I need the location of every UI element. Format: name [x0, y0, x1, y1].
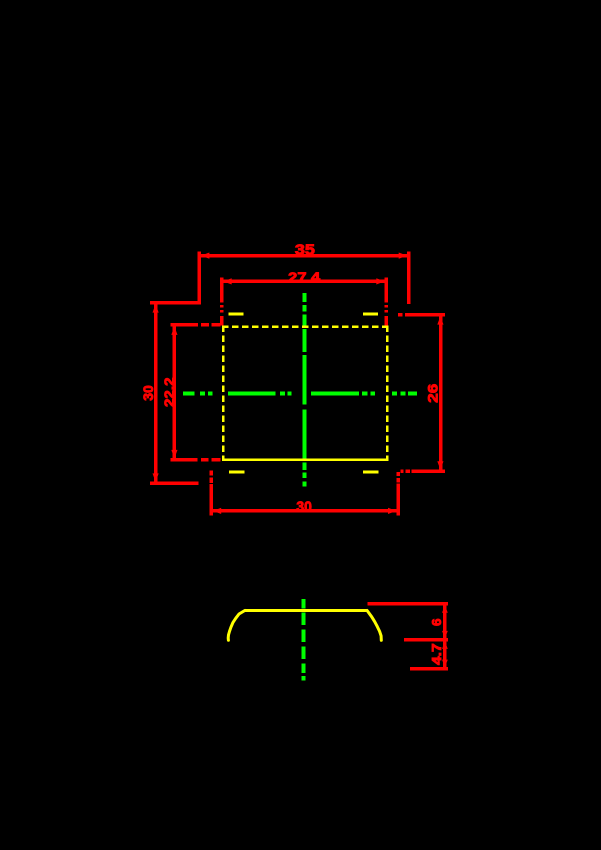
hidden tab dash bottom-right	[363, 470, 378, 473]
outline top edge	[222, 325, 389, 328]
dimension 26: bottom extension line dash-dot	[401, 469, 404, 473]
horizontal centerline top view	[183, 392, 194, 396]
profile outline: flat top	[245, 609, 367, 612]
svg-text:35: 35	[295, 242, 315, 259]
hidden tab dash top-right	[363, 313, 378, 316]
arrow 26 bottom	[437, 461, 443, 470]
arrow 35 right	[399, 253, 408, 259]
dimension 22.2: top extension line dash-dot	[171, 323, 198, 327]
profile dim: top extension line	[368, 602, 449, 606]
svg-text:27.4: 27.4	[288, 269, 320, 285]
arrow 30 left bottom	[153, 473, 159, 482]
arrow 35 left	[201, 253, 210, 259]
svg-text:30: 30	[296, 499, 312, 516]
arrow profile middle down	[442, 631, 448, 639]
hidden tab dash bottom-left	[229, 470, 245, 473]
dimension 30 bottom: right extension line dash-dot	[396, 472, 400, 476]
dimension 30 bottom: left extension line dash-dot	[209, 471, 213, 476]
outline right edge	[386, 325, 389, 459]
hidden tab dash top-left	[229, 313, 244, 316]
svg-text:4.7: 4.7	[429, 643, 444, 665]
dimension 30 left: dim line	[154, 304, 158, 484]
svg-text:22.2: 22.2	[161, 377, 177, 407]
outline left edge	[222, 325, 225, 459]
outline bottom edge (solid)	[222, 458, 389, 461]
svg-text:6: 6	[429, 619, 444, 627]
arrow 30 left top	[153, 304, 159, 313]
profile dim: middle extension line	[404, 638, 448, 642]
profile outline: right shoulder arc	[367, 610, 381, 640]
arrow 22.2 top	[171, 326, 177, 335]
dimension 35: dim line	[199, 254, 408, 258]
arrow 22.2 bottom	[171, 450, 177, 459]
vertical centerline top view	[302, 293, 306, 302]
dimension 30 left: bottom extension line	[150, 482, 198, 486]
svg-text:26: 26	[425, 384, 441, 403]
arrow 30 bottom right	[388, 508, 397, 514]
svg-text:30: 30	[140, 385, 156, 401]
vertical centerline profile view	[302, 599, 306, 608]
dimension 30 left: top extension line	[150, 301, 201, 305]
profile dim: bottom extension line	[410, 667, 448, 671]
dimension 22.2: bottom extension line dash-dot	[171, 458, 198, 462]
arrow 30 bottom left	[213, 508, 222, 514]
arrow 26 top	[437, 316, 443, 325]
dimension 27.4: right extension line dashed	[385, 277, 389, 302]
dimension 27.4: dim line	[222, 280, 387, 284]
dimension 26: dim line	[439, 315, 443, 471]
dimension 35: right extension line	[407, 252, 411, 305]
dimension 22.2: dim line	[173, 326, 177, 459]
dimension 30 bottom: dim line	[211, 509, 399, 513]
dimension 35: left extension line	[198, 252, 202, 305]
arrow profile bottom down	[442, 660, 448, 668]
dimension 26: top extension line dash-dot	[398, 313, 403, 317]
arrow 27.4 left	[223, 278, 232, 284]
arrow 27.4 right	[376, 278, 385, 284]
arrow profile middle up	[442, 641, 448, 649]
dimension 27.4: left extension line dashed	[220, 277, 224, 302]
profile dim: vertical dim line	[443, 603, 447, 671]
profile outline: left shoulder arc	[228, 610, 245, 640]
arrow profile top up	[442, 605, 448, 613]
